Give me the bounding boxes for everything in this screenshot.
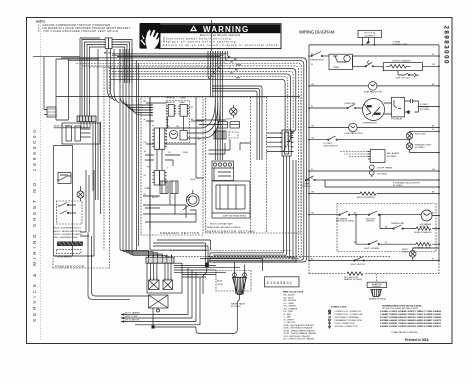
dashed loop nest [75,51,301,258]
adc pictorial refr [214,131,238,139]
svg-text:W-BK - WHITE-BLACK TRACER: W-BK - WHITE-BLACK TRACER [284,324,315,327]
svg-text:BK TO CABINET: BK TO CABINET [125,312,141,315]
svg-text:DOOR HEATER: DOOR HEATER [57,255,72,258]
svg-text:THERMOSTAT: THERMOSTAT [391,222,405,225]
resistor im mold heater [416,227,431,230]
wire drop to blocks [203,267,207,294]
switch door upper [57,173,72,184]
svg-text:28983000: 28983000 [442,26,449,65]
svg-text:W: W [432,54,434,56]
lamp refr pictorial [230,105,237,118]
capacitor run pictorial [183,190,199,210]
border frame of sheet [27,18,453,344]
svg-text:W: W [432,258,434,260]
connector left edge small [44,57,56,117]
svg-text:W: W [311,169,313,171]
switch fresh food control [305,176,321,181]
wire rung evap fan [309,85,439,87]
svg-text:LIGHT: LIGHT [402,252,409,254]
svg-text:PERMANENT CONNECTION: PERMANENT CONNECTION [335,319,363,322]
dashed freezer section box [141,97,203,235]
wire lamp drop [410,152,440,154]
svg-text:5.673E97 3.205E84 4.481E22 9.8: 5.673E97 3.205E84 4.481E22 9.829E18 1.73… [380,316,441,319]
wire left rail L1 [308,45,310,261]
wire rung water valve [356,215,439,245]
wire rung sensor [309,170,439,172]
svg-text:W-Y - WHITE-YELLOW TRACER: W-Y - WHITE-YELLOW TRACER [284,338,315,341]
svg-text:PK - PINK: PK - PINK [284,311,294,313]
wire bottom elbows [150,97,211,262]
svg-text:COMP XXX METAL SHIELD: COMP XXX METAL SHIELD [222,215,247,218]
switch shut off arm [368,241,379,245]
dashed outer border [267,97,302,233]
svg-text:W: W [432,129,434,131]
control boxes refr [218,122,240,129]
svg-text:FREEZER DOOR: FREEZER DOOR [55,264,85,268]
symbol glyphs [328,310,331,329]
wires fz interior [145,97,184,230]
wire drops to arrows [121,268,200,325]
defrost cut-out link [398,71,417,77]
svg-text:OR-W—CRUSHER SOLENOID: OR-W—CRUSHER SOLENOID [54,234,83,236]
wires refr lower [209,139,251,154]
switch defrost thermostat [365,61,374,68]
dashed top crossing wire [90,66,210,68]
wire rung im thermostat [380,215,439,229]
wire bundle C vertical [211,20,213,51]
svg-text:6.254E60 1.174E78 2.474E84 1.6: 6.254E60 1.174E78 2.474E84 1.619E37 1.18… [380,310,442,313]
svg-text:W-OR - WHITE-ORANGE TRACER: W-OR - WHITE-ORANGE TRACER [284,332,317,335]
capacitor run cap [405,99,419,114]
svg-text:DEFROST: DEFROST [166,102,176,104]
svg-text:60 HERTZ: 60 HERTZ [365,35,376,37]
motor ice maker [421,210,432,221]
svg-text:GN - GREEN: GN - GREEN [284,306,297,308]
svg-text:W-GN - WHITE-GREEN TRACER: W-GN - WHITE-GREEN TRACER [284,329,315,332]
wire section top [56,96,300,98]
wires housing interior [151,263,172,278]
svg-text:WIRING DIAGRAM: WIRING DIAGRAM [299,30,335,35]
transformer block B [163,278,173,290]
svg-text:BU-GY: BU-GY [152,197,159,199]
dashed refrigerator section box [206,97,267,233]
door panel outline [54,146,73,257]
junction blob [205,263,209,268]
dashed dispenser switch box [57,201,83,224]
door connector box [62,123,100,144]
wire rung compressor [309,107,363,109]
sensor defrost thermistor [370,165,375,177]
svg-text:W - WHITE: W - WHITE [284,319,295,321]
svg-text:GROUND CONNECTOR: GROUND CONNECTOR [335,326,358,328]
svg-text:W-R: W-R [236,78,240,80]
svg-text:TIMER: TIMER [179,102,186,104]
connector top plug pair [103,38,114,49]
wire fan left of connector [80,38,103,116]
dashed bottom runs [165,251,390,257]
wires fz lower extra [145,205,196,222]
ice maker head pictorial [212,161,234,181]
relay PTC box [384,97,405,117]
svg-text:8.699E68 6.406E41 3.815E41 2.6: 8.699E68 6.406E41 3.815E41 2.688E48 9.60… [380,319,442,322]
wires fz extra [143,97,204,214]
labels fz scatter [147,107,201,199]
svg-text:LIGHT: LIGHT [226,119,233,121]
connector pair fz bottom [152,171,166,186]
svg-text:ADC: ADC [214,131,219,134]
svg-text:7.268E53 3.600E63 1.784E19 9.6: 7.268E53 3.600E63 1.784E19 9.686E50 6.81… [380,322,442,325]
lamp dispenser light [77,186,84,201]
svg-text:DEFROST: DEFROST [372,286,382,288]
svg-text:W-BK—DISPENSER SW N.O.: W-BK—DISPENSER SW N.O. [54,228,82,230]
switch thermostat [311,52,329,57]
heater door bar [58,242,83,246]
motor evap fan [368,82,377,91]
wire rung mullion upper [321,179,439,181]
wire bottom runs [200,253,296,271]
dashed heater bar 2 [57,250,82,259]
dashed valve box [216,271,251,292]
water valve funnel [233,273,247,303]
wire valve feeds [210,257,298,276]
housing dispenser control [147,263,182,293]
svg-text:LIGHT SWITCH: LIGHT SWITCH [323,145,338,147]
svg-text:W: W [311,106,313,108]
wire door loop outline [56,59,99,120]
svg-text:COMPRESSOR: COMPRESSOR [362,123,377,125]
resistor mullion heater [309,192,439,195]
dashed freezer door border [53,67,110,268]
wire rung freezer light [309,131,439,139]
pins freezer feed [150,105,153,115]
svg-text:ADC BOARD: ADC BOARD [387,152,400,155]
wire right rail N [438,45,440,261]
arrow terminals [121,313,124,322]
wire top rail [309,44,439,46]
svg-text:OR-W: OR-W [190,179,195,181]
supply drop wires [363,38,375,45]
wire rung mid [325,180,439,187]
switch refr light [354,257,365,261]
svg-text:DEFROST HEATER: DEFROST HEATER [392,60,411,63]
svg-text:BU - BLUE: BU - BLUE [284,297,295,299]
arrow labels [125,312,141,322]
module adaptive defrost [367,274,387,288]
transformer block A [149,278,160,290]
wire bundle upper left verticals [107,49,119,103]
svg-text:LIGHT SWITCH: LIGHT SWITCH [350,264,365,266]
wire bottom rail [309,260,439,262]
ground symbol [366,41,369,44]
warning box [160,24,282,49]
motor compressor [363,99,385,121]
rung color labels [311,54,435,260]
svg-text:SWITCH: SWITCH [366,221,375,223]
svg-text:RUN CAP: RUN CAP [420,105,430,108]
switch overload [347,104,356,108]
symbol code table [331,307,363,328]
wire color labels on loops [228,56,242,79]
wire rung cond fan [309,127,439,129]
wire rung im motor [309,214,439,217]
svg-text:SWITCH (IF USED): SWITCH (IF USED) [336,221,354,223]
svg-text:ALARM (IF USED): ALARM (IF USED) [369,298,386,301]
wires below loop connector [284,156,297,262]
svg-text:W: W [311,64,313,66]
115V 60Hz supply box [358,30,382,37]
wire link timer to rung2 [353,56,384,71]
wire band right [174,265,240,277]
wire bundle B vertical [120,49,167,255]
svg-text:MULLION HEATER: MULLION HEATER [357,196,375,199]
dispenser labels [54,228,83,240]
wire freezer box outer verticals [137,60,139,250]
fold line [39,20,41,340]
svg-text:DEFROST: DEFROST [166,98,176,100]
wire bundle C into section [210,51,222,160]
labels refr interior [206,119,241,229]
svg-text:EVAP FAN MOTOR: EVAP FAN MOTOR [364,90,382,93]
switch ice maker [339,211,350,215]
warning hand icon [140,23,161,49]
svg-text:OF THE FOLLOWING SETTING POINT: OF THE FOLLOWING SETTING POINTS [382,308,419,310]
svg-text:(IF USED): (IF USED) [387,156,397,158]
svg-text:CONNECTOR - SCREW ON: CONNECTOR - SCREW ON [335,311,362,313]
svg-text:DEF. CUT-OUT: DEF. CUT-OUT [396,78,411,80]
motor cond fan [349,123,358,132]
resistor ext mullion heater [347,272,363,275]
wire door bundle below bar [54,122,96,200]
svg-text:W-R—DISPENSER LIGHT: W-R—DISPENSER LIGHT [54,237,79,239]
svg-text:(IF USED): (IF USED) [378,173,388,175]
labels fz interior [144,102,191,201]
junction block X3 [149,295,169,312]
svg-text:SERVICE & WIRING SHEET NO. 289: SERVICE & WIRING SHEET NO. 28983000 [32,130,37,322]
svg-text:BR - BROWN: BR - BROWN [284,300,297,302]
svg-text:FREEZER SECTION: FREEZER SECTION [160,231,199,235]
wire inner loops [212,86,262,160]
svg-text:CONNECTOR - CLOSED END: CONNECTOR - CLOSED END [335,314,364,316]
svg-text:PTC RELAY: PTC RELAY [391,118,403,121]
svg-text:W-BU - WHITE-BLUE TRACER: W-BU - WHITE-BLUE TRACER [284,327,313,330]
resistor defrost heater [383,63,422,71]
notes text block [36,20,131,34]
svg-text:(IF USED): (IF USED) [393,185,403,187]
switch light freezer [328,136,338,140]
ice maker body pictorial [212,181,250,218]
svg-text:CONN: CONN [144,188,150,190]
svg-text:W-R - WHITE-RED TRACER: W-R - WHITE-RED TRACER [284,335,311,338]
coil im water valve [416,243,431,246]
svg-text:RUN: RUN [367,106,372,108]
switch im thermostat [393,225,410,229]
buzzer alarm [371,289,382,296]
svg-text:Y - YELLOW: Y - YELLOW [284,322,296,324]
svg-text:MODEL & SERIAL PLATE: MODEL & SERIAL PLATE [210,223,233,226]
wire cross feed to right bundle [112,54,227,57]
svg-text:GY - GRAY: GY - GRAY [284,302,295,305]
lamp refr light [409,248,439,261]
wire rung2 [353,65,440,67]
svg-text:W-BK: W-BK [236,64,242,66]
timer box TIMER [329,54,353,69]
svg-text:HEATER (IF USED): HEATER (IF USED) [344,278,362,281]
wire door panel right [54,170,95,256]
svg-text:W: W [144,151,146,153]
terminal bar bottom [146,255,174,263]
wire rung1 [353,55,440,57]
svg-text:1.946E82 2.328E90 1.690E84 7.1: 1.946E82 2.328E90 1.690E84 7.150E38 1.67… [380,313,441,316]
part number box [265,277,300,287]
wire valve return loop [196,303,237,334]
svg-text:(IF USED): (IF USED) [231,306,241,308]
terminal bar door [77,116,96,122]
connector blocks fz top [167,104,189,116]
lamp freezer light 1 [406,131,413,143]
svg-text:W: W [152,126,154,128]
svg-text:COND FAN MOTOR: COND FAN MOTOR [344,132,363,135]
svg-text:TIMER: TIMER [180,98,187,100]
dashed door inner line [103,67,105,250]
svg-text:PLUG CONNECTION: PLUG CONNECTION [335,323,355,325]
temperature table [380,305,442,334]
svg-text:FZR LIGHT: FZR LIGHT [415,134,426,136]
svg-text:W-BK TO SW: W-BK TO SW [125,316,137,318]
dashed fz sub-box [167,101,190,143]
dashed inner border [250,97,252,233]
svg-text:W: W [228,56,230,58]
wire relay to rail [418,106,439,108]
wire sweeps into freezer [165,100,226,138]
valve wire labels [217,281,223,287]
connector loop block [280,130,294,156]
svg-text:OR TO MOTOR: OR TO MOTOR [125,320,140,322]
module ADC board [340,150,385,163]
wire left cabinet ground [33,56,80,58]
wire loop nest [61,51,307,262]
svg-text:(IF USED): (IF USED) [415,147,425,149]
svg-text:SHUT OFF ARM: SHUT OFF ARM [364,247,379,250]
svg-text:THERMOSTAT CAPILLARY LOCATION: THERMOSTAT CAPILLARY LOCATION [206,226,241,229]
wire door right risers [80,49,101,236]
svg-text:THERMOSTAT: THERMOSTAT [310,59,325,62]
svg-text:REFRIGERATOR SECTION: REFRIGERATOR SECTION [207,230,255,234]
svg-text:OTHER PATENTS PENDING: OTHER PATENTS PENDING [391,331,418,334]
svg-text:T - TAN: T - TAN [284,316,291,319]
svg-text:DISCONNECT TERMINAL: DISCONNECT TERMINAL [335,316,360,319]
lamp freezer light 2 [406,143,413,153]
svg-text:W: W [385,242,387,244]
svg-text:IM MOLD HEATER: IM MOLD HEATER [414,231,432,234]
svg-text:W DEF THERM: W DEF THERM [378,168,393,170]
wire branch curves into section [120,97,150,115]
svg-text:TIMER: TIMER [333,67,340,69]
svg-text:START: START [374,113,381,116]
timer defrost pictorial [169,130,187,140]
svg-text:3. TOP COVER GROUNDED THROUGH: 3. TOP COVER GROUNDED THROUGH VENT GRILL… [38,30,118,33]
svg-text:BU-GY—AUGER MOTOR BK: BU-GY—AUGER MOTOR BK [54,230,82,233]
dashed rung ext mullion [309,261,439,274]
labels fz wires [144,98,195,196]
svg-text:BK-W: BK-W [217,281,222,283]
svg-text:W: W [311,178,313,180]
wire door feed loop [88,232,149,299]
svg-text:OR-W: OR-W [217,284,223,286]
svg-text:OVERLOAD: OVERLOAD [344,102,356,105]
connector pair fz mid [152,128,166,149]
svg-text:BK - BLACK: BK - BLACK [284,294,296,297]
wire fan right of connector [115,40,132,84]
junction dots [308,44,440,261]
svg-text:W: W [144,119,146,121]
dashed icemaker enclosure [337,204,436,252]
svg-text:R - RED: R - RED [284,314,292,316]
connector blocks fz lower [160,181,178,194]
svg-text:SYMBOL CODE: SYMBOL CODE [331,307,347,309]
svg-text:115 VOLTS: 115 VOLTS [364,33,376,35]
switch holding [368,211,379,215]
wire ground run [152,308,196,328]
svg-text:W-BK: W-BK [183,152,189,154]
svg-text:OR - ORANGE: OR - ORANGE [284,307,298,310]
wire color code table [283,291,317,340]
svg-text:(IF USED): (IF USED) [420,109,430,111]
svg-text:21583641: 21583641 [267,281,293,285]
svg-text:WIRE COLOR CODE: WIRE COLOR CODE [283,291,304,293]
svg-text:5.585E99 2.162E99 5.762E83 8.3: 5.585E99 2.162E99 5.762E83 8.391E59 6.12… [380,326,441,328]
svg-text:Failure to do so can result in: Failure to do so can result in death or … [163,43,279,47]
svg-text:Printed in USA: Printed in USA [405,338,429,342]
wires left of loop connector [267,133,280,151]
